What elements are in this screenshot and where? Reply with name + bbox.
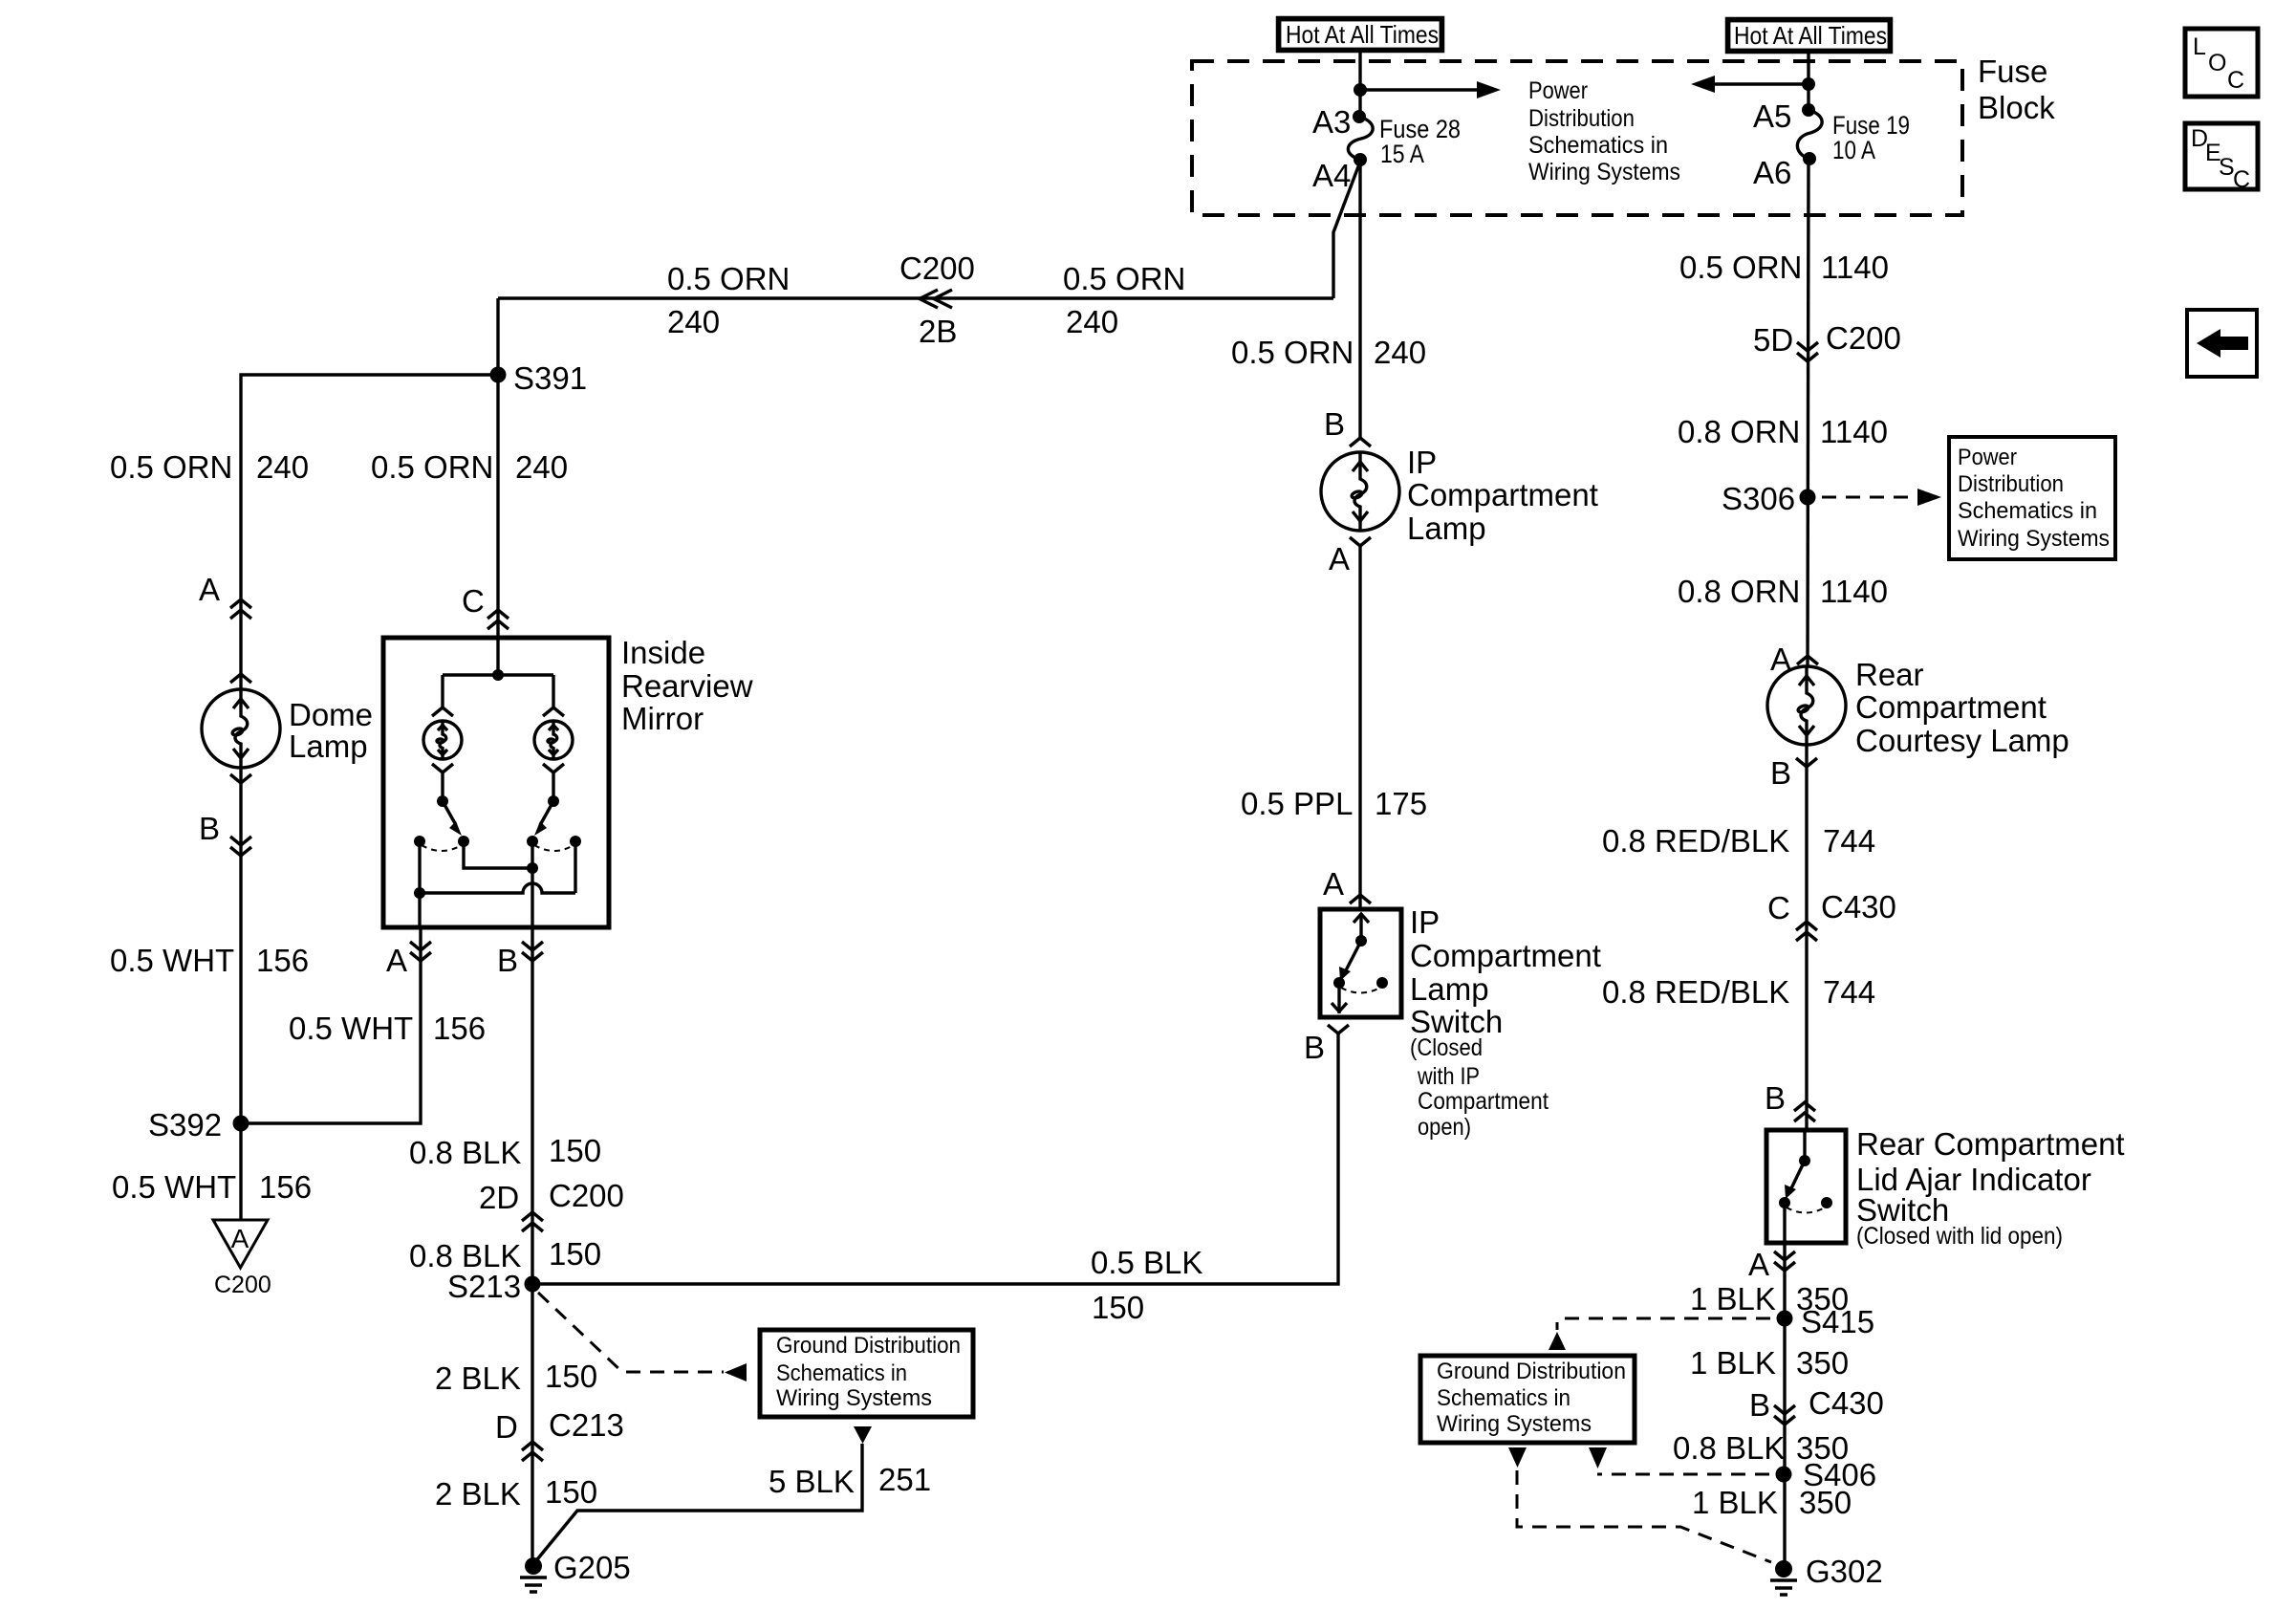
svg-text:0.5 ORN: 0.5 ORN xyxy=(667,261,790,296)
svg-text:S306: S306 xyxy=(1722,481,1795,516)
dashed ref box to G302 xyxy=(1508,1447,1771,1562)
svg-text:1 BLK: 1 BLK xyxy=(1690,1281,1776,1316)
svg-text:A: A xyxy=(1329,541,1350,577)
connector A (IP lamp) xyxy=(1350,537,1371,546)
svg-text:2B: 2B xyxy=(919,314,957,349)
ground G302 xyxy=(1770,1554,1883,1595)
svg-text:A: A xyxy=(231,1224,249,1253)
svg-text:S213: S213 xyxy=(447,1269,521,1304)
svg-text:A4: A4 xyxy=(1312,158,1351,193)
wire dome lamp B to S392 xyxy=(239,767,242,1220)
svg-text:Ground Distribution: Ground Distribution xyxy=(1437,1359,1626,1384)
svg-text:A: A xyxy=(1323,866,1344,902)
svg-text:C: C xyxy=(2227,67,2244,94)
svg-text:(Closed with lid open): (Closed with lid open) xyxy=(1856,1223,2063,1250)
wire A4 diagonal to top horizontal run xyxy=(1333,162,1360,298)
svg-text:Wiring Systems: Wiring Systems xyxy=(776,1385,932,1411)
svg-text:B: B xyxy=(199,811,220,846)
svg-text:C: C xyxy=(2233,166,2250,193)
svg-text:0.5 PPL: 0.5 PPL xyxy=(1241,786,1353,821)
svg-text:0.8 ORN: 0.8 ORN xyxy=(1678,414,1800,449)
power distribution schematics note (top) xyxy=(1528,77,1680,185)
mirror pin A connector xyxy=(410,942,431,961)
mirror left bulb xyxy=(423,707,462,801)
svg-text:744: 744 xyxy=(1823,974,1875,1010)
svg-text:1 BLK: 1 BLK xyxy=(1690,1345,1776,1381)
mirror switch contacts xyxy=(414,836,581,851)
connector D C213 xyxy=(522,1442,543,1461)
svg-text:5 BLK: 5 BLK xyxy=(769,1464,855,1499)
wire hot box to A3 xyxy=(1358,51,1361,117)
power distribution schematics box (right) xyxy=(1949,437,2115,559)
svg-text:240: 240 xyxy=(515,449,568,485)
svg-text:A: A xyxy=(386,943,407,978)
svg-text:Block: Block xyxy=(1978,90,2055,125)
connector A (IP lamp switch) xyxy=(1350,895,1371,903)
mirror left switch blade xyxy=(437,795,462,836)
svg-text:0.5 ORN: 0.5 ORN xyxy=(1679,250,1802,285)
svg-text:IP: IP xyxy=(1410,904,1440,940)
svg-text:B: B xyxy=(497,943,518,978)
svg-text:A6: A6 xyxy=(1753,155,1791,190)
svg-text:251: 251 xyxy=(878,1462,931,1497)
dashed ref box to S406 xyxy=(1589,1447,1607,1469)
wire down from corner to mirror xyxy=(496,298,499,638)
wire S391 to dome lamp column xyxy=(241,375,498,690)
desc box xyxy=(2185,123,2258,193)
hot at all times box (right) xyxy=(1727,19,1891,52)
svg-text:L: L xyxy=(2193,33,2206,60)
svg-text:240: 240 xyxy=(1066,304,1118,339)
wire fuse 19 to rear lamp xyxy=(1808,159,1809,667)
svg-text:1140: 1140 xyxy=(1820,414,1888,449)
svg-text:IP: IP xyxy=(1407,445,1437,480)
arrow to power distribution (right) xyxy=(1360,81,1501,98)
svg-text:with IP: with IP xyxy=(1417,1063,1480,1090)
connector C (mirror) xyxy=(487,610,509,629)
svg-text:Hot At All Times: Hot At All Times xyxy=(1734,21,1887,50)
svg-text:175: 175 xyxy=(1375,786,1427,821)
mirror pin B connector xyxy=(522,942,543,961)
connector A (rear lamp) xyxy=(1797,656,1818,664)
svg-text:S415: S415 xyxy=(1801,1304,1874,1339)
svg-text:Distribution: Distribution xyxy=(1958,471,2064,497)
connector B (IP lamp switch) xyxy=(1328,1025,1349,1033)
svg-text:C200: C200 xyxy=(214,1272,271,1298)
svg-text:S392: S392 xyxy=(148,1107,222,1142)
svg-text:Compartment: Compartment xyxy=(1418,1088,1549,1115)
svg-text:C: C xyxy=(1767,890,1790,925)
mirror right bulb xyxy=(534,707,573,801)
svg-text:A: A xyxy=(1748,1247,1769,1282)
connector B (dome lamp) xyxy=(230,837,251,856)
svg-text:C430: C430 xyxy=(1821,889,1896,925)
mirror internal feed bus xyxy=(443,638,553,707)
svg-text:15 A: 15 A xyxy=(1380,140,1424,168)
svg-text:D: D xyxy=(495,1409,518,1445)
svg-text:Schematics in: Schematics in xyxy=(1958,498,2097,524)
mirror right switch blade xyxy=(534,795,559,836)
node S415 with dashed ref xyxy=(1549,1304,1874,1350)
svg-text:C213: C213 xyxy=(549,1407,624,1443)
svg-text:Wiring Systems: Wiring Systems xyxy=(1958,526,2110,552)
ground distribution box (left) xyxy=(760,1330,973,1417)
svg-text:Schematics in: Schematics in xyxy=(1437,1385,1570,1411)
svg-text:Lamp: Lamp xyxy=(289,729,368,764)
wire mirror B down to S213 xyxy=(531,927,533,1284)
svg-text:A5: A5 xyxy=(1753,98,1791,134)
node S406 with dashed ref xyxy=(1597,1457,1876,1492)
svg-text:B: B xyxy=(1324,406,1345,442)
connector A (dome lamp) xyxy=(230,599,251,619)
svg-text:G302: G302 xyxy=(1806,1554,1883,1589)
svg-text:2D: 2D xyxy=(479,1180,519,1215)
svg-text:150: 150 xyxy=(1092,1290,1144,1325)
svg-text:0.5 WHT: 0.5 WHT xyxy=(289,1011,413,1046)
svg-text:C200: C200 xyxy=(549,1178,624,1213)
wire S213 to G205 xyxy=(531,1284,533,1559)
svg-text:0.8 RED/BLK: 0.8 RED/BLK xyxy=(1602,974,1789,1010)
fuse block (dashed box) xyxy=(1192,61,1962,215)
dome lamp xyxy=(202,674,373,783)
svg-text:B: B xyxy=(1765,1080,1786,1116)
svg-text:0.5 WHT: 0.5 WHT xyxy=(110,943,234,978)
svg-text:Rear Compartment: Rear Compartment xyxy=(1856,1126,2125,1162)
wire S392 to mirror pin A xyxy=(241,927,421,1123)
wire lid switch to G302 xyxy=(1783,1243,1786,1562)
rear compartment courtesy lamp xyxy=(1767,657,2069,758)
inside rearview mirror xyxy=(383,635,753,927)
svg-text:Schematics in: Schematics in xyxy=(776,1360,907,1386)
svg-text:150: 150 xyxy=(549,1133,601,1168)
wire S213 to IP lamp switch B xyxy=(532,1033,1338,1284)
svg-text:Power: Power xyxy=(1528,77,1588,104)
connector B (IP lamp) xyxy=(1350,438,1371,446)
wire IP lamp to switch xyxy=(1358,546,1361,909)
connector B (rear lamp) xyxy=(1796,758,1817,767)
dashed ref S213 to ground distribution xyxy=(538,1293,747,1382)
svg-text:Inside: Inside xyxy=(621,635,705,670)
connector B C430 (lower) xyxy=(1774,1405,1795,1425)
svg-text:C430: C430 xyxy=(1809,1385,1884,1421)
svg-text:Schematics in: Schematics in xyxy=(1528,132,1668,159)
connector 2D C200 xyxy=(522,1212,543,1231)
svg-text:Hot At All Times: Hot At All Times xyxy=(1286,20,1439,49)
svg-text:1 BLK: 1 BLK xyxy=(1692,1485,1778,1520)
svg-text:A3: A3 xyxy=(1312,104,1351,140)
node S391 xyxy=(490,367,507,383)
IP compartment lamp xyxy=(1321,445,1598,546)
svg-text:Compartment: Compartment xyxy=(1410,938,1601,973)
connector B (lid switch) xyxy=(1794,1102,1815,1121)
svg-text:Distribution: Distribution xyxy=(1528,105,1635,132)
svg-text:G205: G205 xyxy=(553,1550,631,1585)
svg-text:0.5 BLK: 0.5 BLK xyxy=(1091,1245,1202,1280)
svg-text:0.5 ORN: 0.5 ORN xyxy=(110,449,232,485)
svg-text:0.5 ORN: 0.5 ORN xyxy=(1063,261,1185,296)
svg-text:240: 240 xyxy=(667,304,720,339)
svg-text:Compartment: Compartment xyxy=(1855,689,2047,725)
node S213 xyxy=(525,1276,541,1293)
fuse 19 xyxy=(1753,52,1910,190)
svg-text:0.5 WHT: 0.5 WHT xyxy=(112,1169,236,1205)
svg-text:Rear: Rear xyxy=(1855,657,1924,692)
svg-text:2 BLK: 2 BLK xyxy=(435,1476,521,1512)
node S392 xyxy=(233,1116,249,1132)
svg-text:0.8 ORN: 0.8 ORN xyxy=(1678,574,1800,609)
svg-text:B: B xyxy=(1749,1387,1770,1423)
svg-text:Dome: Dome xyxy=(289,697,373,732)
svg-text:Wiring Systems: Wiring Systems xyxy=(1437,1411,1592,1437)
svg-text:240: 240 xyxy=(1374,335,1426,370)
hot at all times box (left) xyxy=(1278,18,1442,51)
svg-text:Power: Power xyxy=(1958,445,2017,470)
svg-text:B: B xyxy=(1304,1030,1325,1065)
loc box xyxy=(2185,29,2258,97)
svg-text:150: 150 xyxy=(545,1359,597,1394)
svg-text:0.5 ORN: 0.5 ORN xyxy=(1231,335,1354,370)
svg-text:Mirror: Mirror xyxy=(621,701,704,736)
svg-text:(Closed: (Closed xyxy=(1410,1034,1483,1061)
svg-text:C: C xyxy=(462,583,485,619)
node S306 with dashed ref xyxy=(1722,481,1941,516)
svg-text:Compartment: Compartment xyxy=(1407,477,1598,512)
svg-text:C200: C200 xyxy=(899,250,975,286)
svg-text:744: 744 xyxy=(1823,823,1875,859)
svg-text:156: 156 xyxy=(256,943,309,978)
svg-text:A: A xyxy=(199,572,220,607)
svg-text:10 A: 10 A xyxy=(1832,136,1875,164)
svg-text:S391: S391 xyxy=(513,360,587,396)
svg-text:0.8 BLK: 0.8 BLK xyxy=(409,1135,521,1170)
wire 5 BLK 251 to G205 xyxy=(533,1426,931,1564)
svg-text:Rearview: Rearview xyxy=(621,668,753,704)
connector C C430 xyxy=(1796,922,1817,941)
svg-text:150: 150 xyxy=(549,1236,601,1272)
svg-text:Wiring Systems: Wiring Systems xyxy=(1528,159,1680,185)
svg-text:Lamp: Lamp xyxy=(1410,971,1489,1007)
connector 5D C200 xyxy=(1797,342,1818,361)
svg-text:B: B xyxy=(1770,755,1791,791)
svg-text:Lamp: Lamp xyxy=(1407,511,1486,546)
svg-text:open): open) xyxy=(1418,1114,1471,1141)
svg-text:156: 156 xyxy=(433,1011,486,1046)
fuse 28 xyxy=(1312,104,1461,193)
svg-text:350: 350 xyxy=(1799,1485,1852,1520)
svg-text:Fuse: Fuse xyxy=(1978,54,2047,89)
mirror wiring to pin B xyxy=(464,841,532,927)
svg-text:0.5 ORN: 0.5 ORN xyxy=(371,449,493,485)
back arrow icon xyxy=(2187,310,2257,377)
svg-text:156: 156 xyxy=(259,1169,312,1205)
svg-text:2 BLK: 2 BLK xyxy=(435,1360,521,1396)
mirror wiring to pin A (with hop) xyxy=(420,841,575,927)
ground G205 xyxy=(520,1550,631,1592)
wire fuse 28 output down to IP lamp xyxy=(1358,160,1361,438)
rear compartment lid ajar indicator switch xyxy=(1766,1126,2125,1250)
svg-text:1140: 1140 xyxy=(1821,250,1889,285)
arrow to power distribution (left-pointing) xyxy=(1691,76,1809,93)
svg-text:0.8 BLK: 0.8 BLK xyxy=(1673,1430,1785,1466)
svg-text:240: 240 xyxy=(256,449,309,485)
svg-text:O: O xyxy=(2208,50,2226,76)
ground distribution box (right) xyxy=(1420,1356,1635,1443)
svg-text:Ground Distribution: Ground Distribution xyxy=(776,1333,961,1359)
svg-text:5D: 5D xyxy=(1753,322,1793,358)
svg-text:350: 350 xyxy=(1796,1345,1849,1381)
junction above A3 xyxy=(1354,83,1367,97)
svg-text:0.8 RED/BLK: 0.8 RED/BLK xyxy=(1602,823,1789,859)
svg-text:C200: C200 xyxy=(1826,320,1901,356)
connector A (lid switch) xyxy=(1774,1251,1795,1271)
svg-text:150: 150 xyxy=(545,1474,597,1510)
connector A C200 (triangle) xyxy=(213,1220,271,1298)
wire top horizontal 0.5 ORN 240 xyxy=(498,296,1333,299)
IP compartment lamp switch xyxy=(1320,904,1601,1141)
wire rear lamp to switch xyxy=(1805,745,1808,1130)
svg-text:1140: 1140 xyxy=(1820,574,1888,609)
connector C200 2B (in-line) xyxy=(899,250,975,349)
svg-text:Courtesy Lamp: Courtesy Lamp xyxy=(1855,723,2069,758)
